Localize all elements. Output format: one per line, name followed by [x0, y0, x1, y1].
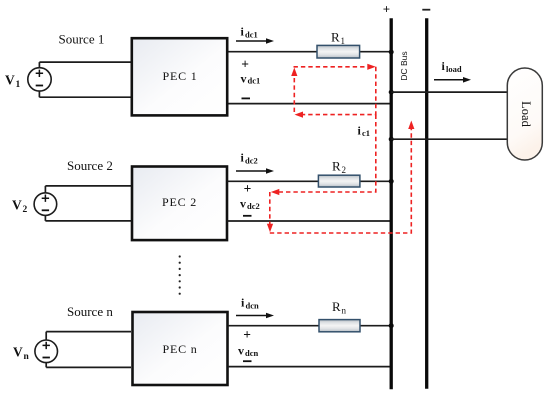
svg-text:i: i: [241, 25, 245, 39]
svg-text:1: 1: [16, 80, 21, 90]
svg-text:i: i: [241, 296, 245, 310]
svg-text:Source 1: Source 1: [59, 32, 105, 47]
svg-text:i: i: [241, 151, 245, 165]
svg-text:PEC 2: PEC 2: [162, 195, 197, 209]
svg-text:dcn: dcn: [245, 348, 259, 358]
svg-text:load: load: [446, 64, 462, 74]
svg-text:n: n: [342, 306, 347, 316]
svg-text:c1: c1: [362, 128, 370, 138]
svg-text:PEC 1: PEC 1: [162, 69, 197, 83]
svg-text:Load: Load: [519, 101, 533, 127]
svg-text:R: R: [331, 30, 340, 45]
svg-text:i: i: [442, 59, 446, 73]
svg-text:1: 1: [341, 36, 346, 46]
svg-text:i: i: [358, 124, 362, 138]
svg-text:V: V: [5, 73, 15, 88]
svg-text:dc1: dc1: [248, 76, 261, 86]
svg-text:+: +: [383, 2, 390, 17]
svg-text:+: +: [243, 327, 251, 342]
svg-text:+: +: [244, 181, 252, 196]
svg-text:v: v: [240, 197, 246, 211]
svg-text:PEC n: PEC n: [162, 342, 197, 356]
svg-text:v: v: [241, 71, 247, 85]
svg-text:V: V: [12, 198, 22, 213]
svg-text:V: V: [13, 345, 23, 360]
svg-text:dcn: dcn: [246, 300, 260, 310]
svg-text:dc2: dc2: [247, 201, 260, 211]
svg-text:R: R: [332, 159, 341, 174]
svg-text:Source n: Source n: [67, 304, 113, 319]
svg-text:n: n: [24, 352, 30, 362]
svg-text:2: 2: [342, 165, 347, 175]
svg-text:+: +: [241, 57, 249, 72]
svg-text:2: 2: [23, 205, 28, 215]
svg-text:dc2: dc2: [245, 155, 258, 165]
svg-text:Source 2: Source 2: [67, 158, 113, 173]
svg-text:R: R: [332, 299, 341, 314]
svg-text:dc1: dc1: [245, 29, 258, 39]
svg-text:v: v: [238, 344, 244, 358]
svg-text:DC Bus: DC Bus: [399, 51, 409, 80]
